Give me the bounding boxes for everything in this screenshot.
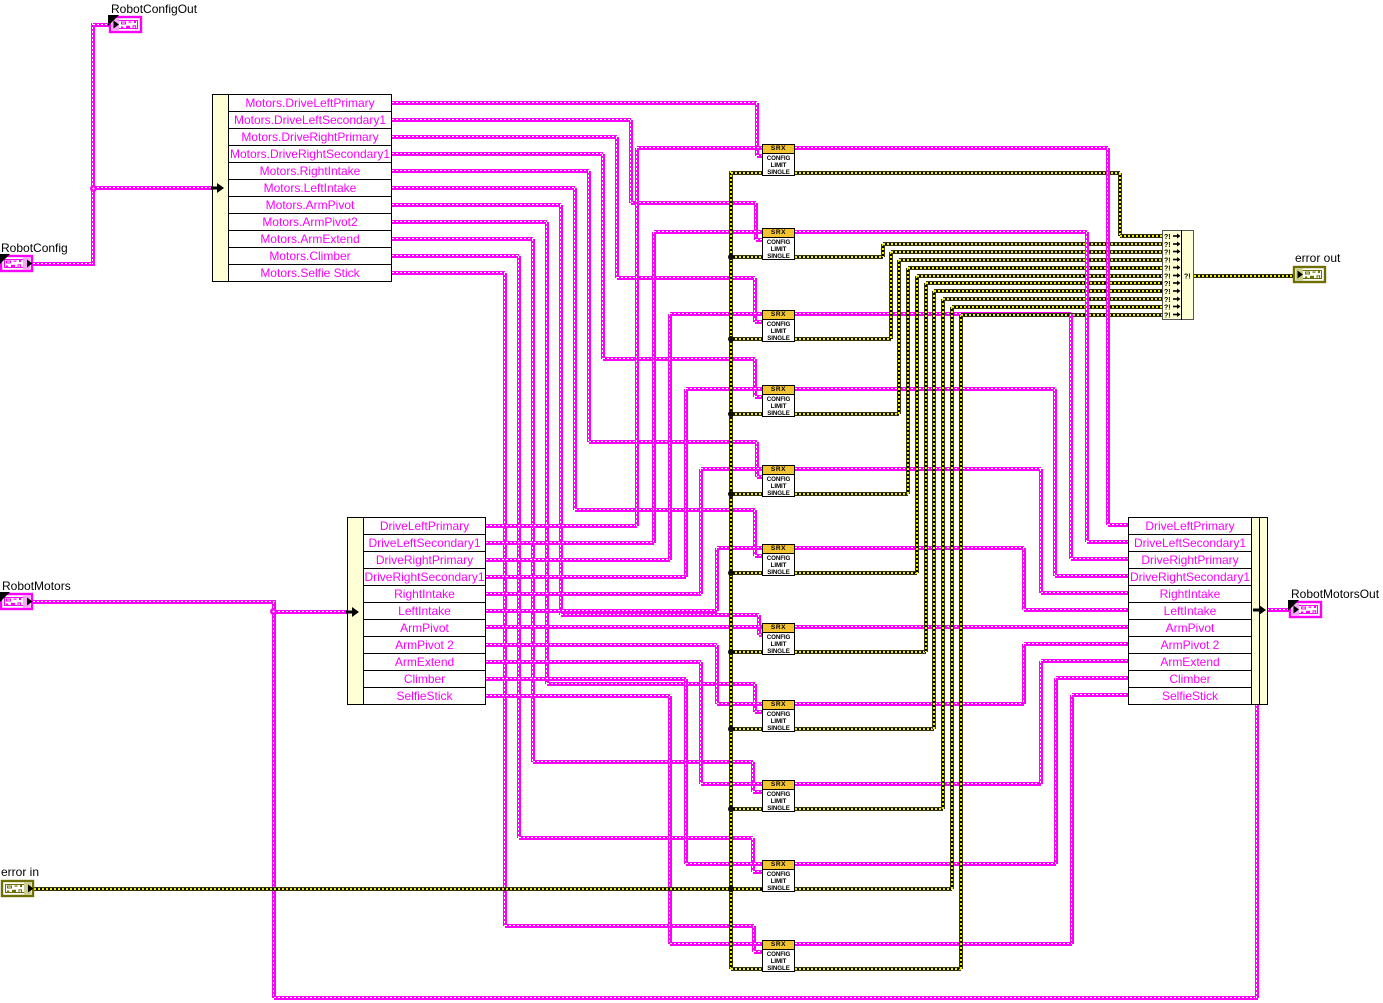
wire error out U8 v xyxy=(932,291,936,729)
junction xyxy=(728,886,734,892)
wire config 9 v2 xyxy=(751,762,755,792)
wire motor out 10 h2 xyxy=(1056,676,1128,680)
wire motor 1 h1 xyxy=(486,524,637,528)
wire config 2 h1 xyxy=(392,118,631,122)
wire motor out 5 h1 xyxy=(795,467,1041,471)
wire config 7 into U7 xyxy=(759,633,762,637)
wire error out U1 h1 xyxy=(795,171,1120,175)
wire motor out 4 v xyxy=(1053,389,1057,576)
junction xyxy=(728,726,734,732)
wire motor 8 h1 xyxy=(486,643,717,647)
wire motor out 3 h1 xyxy=(795,312,1071,316)
wire error out U4 h2 xyxy=(899,258,1162,262)
wire config 2 h2 xyxy=(631,201,756,205)
label RobotConfig xyxy=(1,242,68,254)
wire motor 3 into U3 xyxy=(670,312,762,316)
wire error out U7 h2 xyxy=(926,281,1163,285)
wire error out U7 h1 xyxy=(795,650,926,654)
wire to RobotConfigOut xyxy=(93,23,110,27)
svg-text:?!: ?! xyxy=(1164,266,1171,273)
wire motor out 9 v xyxy=(1039,661,1043,784)
wire config 5 into U5 xyxy=(757,475,763,479)
wire motor 1 v xyxy=(635,148,639,526)
wire config 5 h2 xyxy=(589,440,757,444)
subVI U3 SRX CONFIG LIMIT SINGLE xyxy=(762,310,795,342)
wire config 8 v2 xyxy=(753,684,757,712)
junction xyxy=(728,336,734,342)
wire motor 8 into U8 xyxy=(717,702,762,706)
svg-text:?!: ?! xyxy=(1164,289,1171,296)
wire motor out 6 h1 xyxy=(795,546,1024,550)
wire config 6 into U6 xyxy=(755,554,763,558)
wire error out U5 h2 xyxy=(908,266,1162,270)
control terminal error in xyxy=(0,879,36,899)
wire error out U5 h1 xyxy=(795,492,908,496)
wire error out U1 v xyxy=(1118,173,1122,237)
wire motor out 11 h2 xyxy=(1072,693,1129,697)
wire motor out 6 v xyxy=(1022,548,1026,610)
wire motor out 10 h1 xyxy=(795,862,1056,866)
wire error in feed (to U10) xyxy=(34,887,762,891)
wire motor out 5 v xyxy=(1039,469,1043,593)
bundle-by-name node (RobotMotorsOut) xyxy=(1128,517,1328,705)
wire RobotMotors down-riser xyxy=(272,602,276,998)
wire motor out 8 h1 xyxy=(795,702,1024,706)
wire config 8 h1 xyxy=(392,220,547,224)
wire config 3 h2 xyxy=(617,276,755,280)
subVI U2 SRX CONFIG LIMIT SINGLE xyxy=(762,228,795,260)
wire error out U10 v xyxy=(950,307,954,889)
wire error branch U2 xyxy=(731,255,762,259)
wire error out U9 v xyxy=(941,299,945,809)
wire motor out 5 h2 xyxy=(1041,591,1129,595)
wire error branch U6 xyxy=(731,571,762,575)
wire config 3 h1 xyxy=(392,135,617,139)
wire error out U6 v xyxy=(915,276,919,573)
wire motor 7 direct into U7 xyxy=(486,625,762,629)
indicator terminal RobotMotorsOut xyxy=(1288,600,1324,620)
wire Bundle output to RobotMotorsOut xyxy=(1267,608,1290,612)
wire error out U9 h1 xyxy=(795,807,943,811)
wire config 11 v1 xyxy=(503,273,507,927)
junction xyxy=(728,491,734,497)
svg-text:?!: ?! xyxy=(1164,242,1171,249)
wire config 5 v2 xyxy=(755,442,759,477)
junction xyxy=(728,806,734,812)
wire motor out 4 h1 xyxy=(795,387,1055,391)
svg-text:?!: ?! xyxy=(1184,274,1191,281)
junction xyxy=(728,570,734,576)
wire motor 9 into U9 xyxy=(701,782,762,786)
wire error out U7 v xyxy=(924,283,928,652)
wire error out U3 h2 xyxy=(891,250,1163,254)
wire config 9 into U9 xyxy=(753,790,762,794)
wire error branch U1 xyxy=(731,171,762,175)
wire config 3 v2 xyxy=(753,278,757,322)
wire merged error to error out xyxy=(1194,274,1294,278)
wire motor out 1 h2 xyxy=(1108,523,1128,527)
junction RobotMotors branch xyxy=(270,608,277,615)
wire RobotMotors out xyxy=(33,600,276,604)
wire Bundle bottom riser xyxy=(1255,704,1259,998)
indicator terminal error out xyxy=(1292,265,1328,285)
wire motor 4 v xyxy=(684,389,688,577)
wire error out U9 h2 xyxy=(943,297,1162,301)
junction xyxy=(728,649,734,655)
wire config 2 into U2 xyxy=(756,238,763,242)
label RobotConfigOut xyxy=(111,3,197,15)
wire config 10 h2 xyxy=(519,836,753,840)
wire config 8 v1 xyxy=(545,222,549,684)
wire error out U3 h1 xyxy=(795,337,891,341)
wire config 6 v2 xyxy=(753,510,757,556)
wire config 10 v2 xyxy=(751,838,755,872)
wire motor 11 into U11 xyxy=(670,942,762,946)
subVI U1 SRX CONFIG LIMIT SINGLE xyxy=(762,144,795,176)
wire config 7 v2 xyxy=(757,615,761,635)
wire motor out 7 direct to bundle xyxy=(795,625,1128,629)
wire branch to Unbundle1 xyxy=(93,186,212,190)
wire motor out 3 h2 xyxy=(1071,557,1129,561)
wire motor 8 v xyxy=(715,645,719,704)
wire config 1 h xyxy=(392,101,757,105)
wire motor out 3 v xyxy=(1069,314,1073,559)
wire error out U4 v xyxy=(897,260,901,414)
wire motor 3 h1 xyxy=(486,558,670,562)
label error out xyxy=(1295,252,1340,264)
wire motor 6 v xyxy=(715,548,719,611)
junction xyxy=(728,254,734,260)
subVI U10 SRX CONFIG LIMIT SINGLE xyxy=(762,860,795,892)
subVI U4 SRX CONFIG LIMIT SINGLE xyxy=(762,385,795,417)
wire motor 11 v xyxy=(668,696,672,944)
wire motor out 1 v xyxy=(1106,148,1110,525)
wire config 10 into U10 xyxy=(753,870,762,874)
wire config 3 v1 xyxy=(615,137,619,278)
wire config 9 v1 xyxy=(531,239,535,762)
wire config 10 v1 xyxy=(517,256,521,839)
svg-text:?!: ?! xyxy=(1164,297,1171,304)
junction xyxy=(728,411,734,417)
wire motor out 1 h1 xyxy=(795,146,1108,150)
unbundle-by-name node (RobotConfig Motors) xyxy=(212,94,412,282)
wire motor 10 h1 xyxy=(486,677,686,681)
wire error out U2 v xyxy=(881,244,885,257)
subVI U5 SRX CONFIG LIMIT SINGLE xyxy=(762,465,795,497)
wire motor 10 v xyxy=(684,679,688,864)
wire RobotConfig to riser xyxy=(33,262,95,266)
wire config 2 v1 xyxy=(629,120,633,203)
wire config 5 h1 xyxy=(392,169,589,173)
wire motor 2 v xyxy=(652,232,656,543)
wire error out U4 h1 xyxy=(795,412,899,416)
wire motor out 2 h2 xyxy=(1087,540,1129,544)
wire motor 3 v xyxy=(668,314,672,560)
wire error out U2 h1 xyxy=(795,255,883,259)
wire motor 2 h1 xyxy=(486,541,654,545)
wire config 9 h2 xyxy=(533,760,754,764)
wire motor 11 h1 xyxy=(486,694,670,698)
wire config 11 into U11 xyxy=(754,950,762,954)
wire error out U1 h2 xyxy=(1120,234,1163,238)
label error in xyxy=(1,866,39,878)
svg-text:?!: ?! xyxy=(1164,234,1171,241)
wire bottom feed to Bundle xyxy=(274,996,1259,1000)
wire config 3 into U3 xyxy=(755,320,762,324)
wire error out U10 h2 xyxy=(952,305,1162,309)
wire config 1 v xyxy=(755,103,759,156)
Unbundle2 input arrow xyxy=(346,607,359,617)
wire motor 9 h1 xyxy=(486,660,701,664)
unbundle-by-name node (RobotMotors) xyxy=(347,517,547,705)
wire config 2 v2 xyxy=(754,203,758,240)
wire config 4 h1 xyxy=(392,152,603,156)
indicator terminal RobotConfigOut xyxy=(108,15,144,35)
wire error out U11 h1 xyxy=(795,967,961,971)
svg-text:?!: ?! xyxy=(1164,274,1171,281)
wire error out U5 v xyxy=(906,268,910,494)
wire motor 4 h1 xyxy=(486,575,686,579)
wire error branch U8 xyxy=(731,727,762,731)
label RobotMotors xyxy=(2,580,71,592)
wire config 4 h2 xyxy=(603,357,755,361)
wire motor out 2 h1 xyxy=(795,230,1087,234)
wire motor 9 v xyxy=(699,662,703,784)
svg-text:?!: ?! xyxy=(1164,281,1171,288)
wire error out U11 v xyxy=(959,315,963,969)
wire config 7 h1 xyxy=(392,203,561,207)
wire config 11 v2 xyxy=(752,926,756,952)
wire motor out 8 h2 xyxy=(1024,642,1128,646)
wire config 4 v1 xyxy=(601,154,605,359)
wire error out U11 h2 xyxy=(961,313,1162,317)
wire config 10 h1 xyxy=(392,254,519,258)
wire motor out 9 h1 xyxy=(795,782,1041,786)
svg-text:?!: ?! xyxy=(1164,258,1171,265)
wire config 7 h2 xyxy=(561,613,760,617)
subVI U8 SRX CONFIG LIMIT SINGLE xyxy=(762,700,795,732)
wire motor 5 v xyxy=(699,469,703,594)
wire motor 10 into U10 xyxy=(686,862,762,866)
wire config 7 v1 xyxy=(559,205,563,616)
wire config 1 into U1 xyxy=(757,154,762,158)
wire error branch U3 xyxy=(731,337,762,341)
wire error branch U4 xyxy=(731,412,762,416)
merge errors node xyxy=(1162,230,1194,320)
wire motor out 11 h1 xyxy=(795,942,1072,946)
Bundle output arrow xyxy=(1253,605,1266,615)
wire motor 5 h1 xyxy=(486,592,701,596)
wire config 11 h1 xyxy=(392,271,505,275)
control terminal RobotMotors xyxy=(0,592,35,612)
wire motor out 10 v xyxy=(1054,678,1058,864)
junction xyxy=(728,886,734,892)
subVI U7 SRX CONFIG LIMIT SINGLE xyxy=(762,623,795,655)
wire error out U3 v xyxy=(889,252,893,339)
wire error out U10 h1 xyxy=(795,887,952,891)
subVI U9 SRX CONFIG LIMIT SINGLE xyxy=(762,780,795,812)
svg-text:?!: ?! xyxy=(1164,250,1171,257)
label RobotMotorsOut xyxy=(1291,588,1379,600)
subVI U11 SRX CONFIG LIMIT SINGLE xyxy=(762,940,795,972)
wire motor out 4 h2 xyxy=(1055,574,1128,578)
subVI U6 SRX CONFIG LIMIT SINGLE xyxy=(762,544,795,576)
wire config 6 v1 xyxy=(573,188,577,511)
wire motor 5 into U5 xyxy=(701,467,762,471)
wire config 4 into U4 xyxy=(755,395,762,399)
wire motor 2 into U2 xyxy=(654,230,762,234)
wire error out U8 h1 xyxy=(795,727,934,731)
wire motor 6 h1 xyxy=(486,609,717,613)
Unbundle1 input arrow xyxy=(211,183,224,193)
wire config 8 h2 xyxy=(547,682,755,686)
wire motor out 6 h2 xyxy=(1024,608,1128,612)
wire config 6 h1 xyxy=(392,186,575,190)
svg-text:?!: ?! xyxy=(1164,305,1171,312)
wire branch to Unbundle2 xyxy=(274,610,347,614)
wire config 4 v2 xyxy=(753,359,757,397)
wire motor out 8 v xyxy=(1022,644,1026,704)
wire config 5 v1 xyxy=(587,171,591,443)
wire error-in bus xyxy=(729,171,733,969)
svg-text:?!: ?! xyxy=(1164,313,1171,319)
wire config 8 into U8 xyxy=(755,710,763,714)
wire error out U6 h1 xyxy=(795,571,917,575)
wire motor out 11 v xyxy=(1070,695,1074,944)
wire motor 1 into U1 xyxy=(637,146,762,150)
wire error out U2 h2 xyxy=(883,242,1163,246)
control terminal RobotConfig xyxy=(0,254,35,274)
wire error out U6 h2 xyxy=(917,274,1162,278)
wire config 6 h2 xyxy=(575,508,755,512)
wire error branch U11 xyxy=(731,967,762,971)
wire motor out 9 h2 xyxy=(1041,659,1129,663)
wire error out U8 h2 xyxy=(934,289,1162,293)
wire motor 6 into U6 xyxy=(717,546,762,550)
junction RobotConfig branch xyxy=(90,185,97,192)
wire config 11 h2 xyxy=(505,924,755,928)
wire RobotConfig riser xyxy=(91,23,95,264)
wire error branch U5 xyxy=(731,492,762,496)
wire motor 4 into U4 xyxy=(686,387,762,391)
wire config 9 h1 xyxy=(392,237,533,241)
wire error branch U9 xyxy=(731,807,762,811)
wire motor out 2 v xyxy=(1085,232,1089,542)
wire error branch U7 xyxy=(731,650,762,654)
